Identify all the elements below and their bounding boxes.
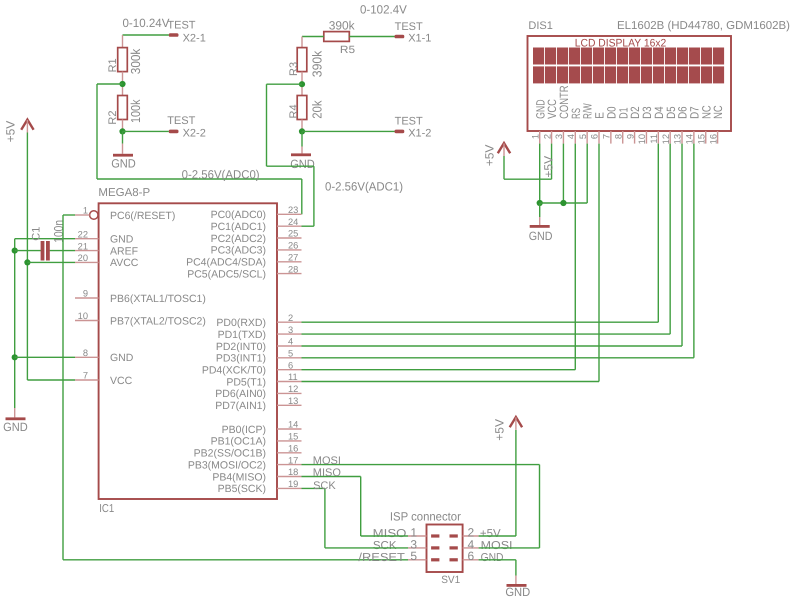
svg-text:+5V: +5V bbox=[3, 121, 17, 143]
svg-text:C1: C1 bbox=[31, 227, 43, 241]
svg-text:24: 24 bbox=[288, 217, 298, 227]
svg-text:9: 9 bbox=[625, 134, 635, 139]
svg-text:4: 4 bbox=[288, 337, 293, 347]
svg-text:8: 8 bbox=[83, 348, 88, 358]
svg-text:10: 10 bbox=[637, 134, 647, 144]
svg-text:28: 28 bbox=[288, 264, 298, 274]
svg-text:SV1: SV1 bbox=[441, 574, 460, 586]
svg-text:2: 2 bbox=[288, 313, 293, 323]
svg-text:PB6(XTAL1/TOSC1): PB6(XTAL1/TOSC1) bbox=[110, 293, 206, 305]
svg-text:6: 6 bbox=[590, 134, 600, 139]
svg-text:PD1(TXD): PD1(TXD) bbox=[218, 329, 266, 341]
svg-text:PD5(T1): PD5(T1) bbox=[226, 376, 266, 388]
svg-text:15: 15 bbox=[288, 432, 298, 442]
svg-text:PD7(AIN1): PD7(AIN1) bbox=[215, 400, 266, 412]
svg-text:3: 3 bbox=[288, 325, 293, 335]
svg-text:GND: GND bbox=[505, 585, 530, 599]
svg-text:EL1602B (HD44780, GDM1602B): EL1602B (HD44780, GDM1602B) bbox=[617, 20, 790, 32]
svg-text:6: 6 bbox=[288, 360, 293, 370]
svg-text:0-10.24V: 0-10.24V bbox=[123, 16, 170, 30]
svg-text:23: 23 bbox=[288, 205, 298, 215]
svg-text:17: 17 bbox=[288, 455, 298, 465]
svg-text:PB2(SS/OC1B): PB2(SS/OC1B) bbox=[194, 448, 266, 460]
svg-text:300k: 300k bbox=[128, 48, 143, 74]
svg-text:PD6(AIN0): PD6(AIN0) bbox=[215, 388, 266, 400]
svg-text:MISO: MISO bbox=[373, 528, 407, 540]
svg-text:5: 5 bbox=[578, 134, 588, 139]
svg-text:0-102.4V: 0-102.4V bbox=[360, 3, 407, 17]
svg-text:27: 27 bbox=[288, 253, 298, 263]
svg-text:SCK: SCK bbox=[313, 480, 336, 492]
svg-text:21: 21 bbox=[78, 241, 88, 251]
svg-text:X2-2: X2-2 bbox=[183, 128, 206, 140]
svg-text:X2-1: X2-1 bbox=[183, 32, 206, 44]
svg-text:25: 25 bbox=[288, 229, 298, 239]
svg-text:R5: R5 bbox=[340, 44, 355, 56]
svg-text:18: 18 bbox=[288, 467, 298, 477]
svg-text:MISO: MISO bbox=[313, 467, 342, 479]
svg-text:15: 15 bbox=[696, 134, 706, 144]
svg-text:R3: R3 bbox=[288, 62, 300, 76]
svg-text:TEST: TEST bbox=[167, 19, 195, 31]
svg-text:22: 22 bbox=[78, 229, 88, 239]
svg-text:PB3(MOSI/OC2): PB3(MOSI/OC2) bbox=[188, 459, 266, 471]
svg-text:PB1(OC1A): PB1(OC1A) bbox=[211, 436, 266, 448]
svg-text:20k: 20k bbox=[309, 100, 324, 119]
svg-text:11: 11 bbox=[649, 134, 659, 144]
svg-text:PD0(RXD): PD0(RXD) bbox=[216, 317, 266, 329]
svg-text:12: 12 bbox=[661, 134, 671, 144]
svg-text:2: 2 bbox=[542, 134, 552, 139]
svg-text:GND: GND bbox=[110, 352, 134, 364]
svg-text:16: 16 bbox=[708, 134, 718, 144]
svg-text:MOSI: MOSI bbox=[481, 540, 513, 552]
svg-text:TEST: TEST bbox=[167, 115, 195, 127]
svg-text:6: 6 bbox=[468, 549, 475, 563]
svg-text:PB0(ICP): PB0(ICP) bbox=[222, 424, 266, 436]
svg-text:X1-1: X1-1 bbox=[408, 32, 431, 44]
svg-text:IC1: IC1 bbox=[99, 503, 114, 515]
svg-text:NC: NC bbox=[711, 105, 725, 119]
svg-text:PC3(ADC3): PC3(ADC3) bbox=[211, 245, 266, 257]
svg-text:PD3(INT1): PD3(INT1) bbox=[216, 353, 266, 365]
svg-text:5: 5 bbox=[288, 349, 293, 359]
svg-text:PC6(/RESET): PC6(/RESET) bbox=[110, 210, 175, 222]
svg-text:PD2(INT0): PD2(INT0) bbox=[216, 341, 266, 353]
svg-text:12: 12 bbox=[288, 384, 298, 394]
svg-text:PC4(ADC4/SDA): PC4(ADC4/SDA) bbox=[186, 257, 266, 269]
svg-text:+5V: +5V bbox=[480, 528, 501, 540]
svg-text:0-2.56V(ADC0): 0-2.56V(ADC0) bbox=[182, 168, 260, 182]
svg-text:ISP connector: ISP connector bbox=[390, 510, 461, 524]
svg-text:R2: R2 bbox=[107, 111, 119, 125]
svg-text:PB5(SCK): PB5(SCK) bbox=[218, 483, 266, 495]
svg-text:13: 13 bbox=[673, 134, 683, 144]
svg-text:TEST: TEST bbox=[395, 116, 423, 128]
svg-text:4: 4 bbox=[566, 134, 576, 139]
svg-text:13: 13 bbox=[288, 396, 298, 406]
svg-text:AREF: AREF bbox=[110, 245, 138, 257]
svg-text:R1: R1 bbox=[107, 58, 119, 72]
svg-text:390k: 390k bbox=[309, 50, 324, 77]
svg-text:100k: 100k bbox=[128, 99, 143, 123]
svg-text:26: 26 bbox=[288, 241, 298, 251]
svg-text:11: 11 bbox=[288, 372, 298, 382]
svg-text:PD4(XCK/T0): PD4(XCK/T0) bbox=[202, 365, 266, 377]
svg-text:R4: R4 bbox=[288, 104, 300, 118]
svg-text:390k: 390k bbox=[329, 19, 356, 33]
svg-text:GND: GND bbox=[111, 157, 136, 171]
svg-text:+5V: +5V bbox=[541, 156, 555, 178]
svg-text:3: 3 bbox=[554, 134, 564, 139]
svg-text:+5V: +5V bbox=[482, 145, 496, 167]
svg-text:1: 1 bbox=[530, 134, 540, 139]
svg-text:PC2(ADC2): PC2(ADC2) bbox=[211, 233, 266, 245]
svg-text:MEGA8-P: MEGA8-P bbox=[98, 187, 150, 199]
svg-text:GND: GND bbox=[529, 229, 553, 243]
svg-text:X1-2: X1-2 bbox=[408, 128, 431, 140]
svg-text:AVCC: AVCC bbox=[110, 257, 139, 269]
svg-text:20: 20 bbox=[78, 253, 88, 263]
svg-text:DIS1: DIS1 bbox=[528, 20, 552, 32]
svg-text:GND: GND bbox=[481, 552, 504, 564]
svg-text:SCK: SCK bbox=[373, 540, 397, 552]
svg-text:GND: GND bbox=[3, 420, 28, 434]
svg-text:PC1(ADC1): PC1(ADC1) bbox=[211, 221, 266, 233]
svg-text:9: 9 bbox=[83, 289, 88, 299]
svg-text:PC5(ADC5/SCL): PC5(ADC5/SCL) bbox=[187, 268, 266, 280]
svg-text:10: 10 bbox=[78, 311, 88, 321]
svg-text:8: 8 bbox=[613, 134, 623, 139]
svg-text:PB4(MISO): PB4(MISO) bbox=[212, 471, 266, 483]
svg-text:PB7(XTAL2/TOSC2): PB7(XTAL2/TOSC2) bbox=[110, 315, 206, 327]
svg-text:GND: GND bbox=[290, 157, 315, 171]
svg-text:MOSI: MOSI bbox=[313, 455, 341, 467]
svg-text:16: 16 bbox=[288, 444, 298, 454]
svg-text:/RESET: /RESET bbox=[358, 552, 405, 564]
svg-text:19: 19 bbox=[288, 479, 298, 489]
svg-text:14: 14 bbox=[685, 134, 695, 144]
svg-text:5: 5 bbox=[410, 549, 417, 563]
svg-text:7: 7 bbox=[83, 371, 88, 381]
svg-text:GND: GND bbox=[110, 234, 134, 246]
svg-text:14: 14 bbox=[288, 420, 298, 430]
svg-text:VCC: VCC bbox=[110, 375, 133, 387]
svg-text:7: 7 bbox=[602, 134, 612, 139]
svg-text:PC0(ADC0): PC0(ADC0) bbox=[211, 209, 266, 221]
svg-text:+5V: +5V bbox=[492, 419, 506, 441]
svg-text:1: 1 bbox=[83, 206, 88, 216]
svg-text:0-2.56V(ADC1): 0-2.56V(ADC1) bbox=[325, 179, 403, 193]
